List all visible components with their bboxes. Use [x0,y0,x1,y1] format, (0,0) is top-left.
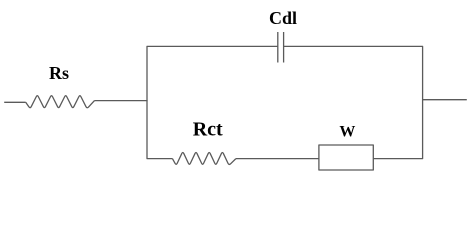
capacitor Cdl [278,32,284,63]
wire left vertical + top-left branch [147,46,278,158]
wire top-right + right vertical branch [284,46,423,158]
svg-text:Rct: Rct [193,119,223,141]
resistor Rs [26,96,95,108]
svg-text:Cdl: Cdl [269,8,297,28]
wire left terminal [4,101,26,103]
wire right terminal [423,99,467,101]
resistor Rct [172,152,236,164]
wire Rct to W [236,158,319,160]
wire Rs to node A [95,100,148,102]
svg-text:Rs: Rs [49,63,69,83]
Warburg element W [319,145,373,170]
svg-text:W: W [339,124,355,141]
